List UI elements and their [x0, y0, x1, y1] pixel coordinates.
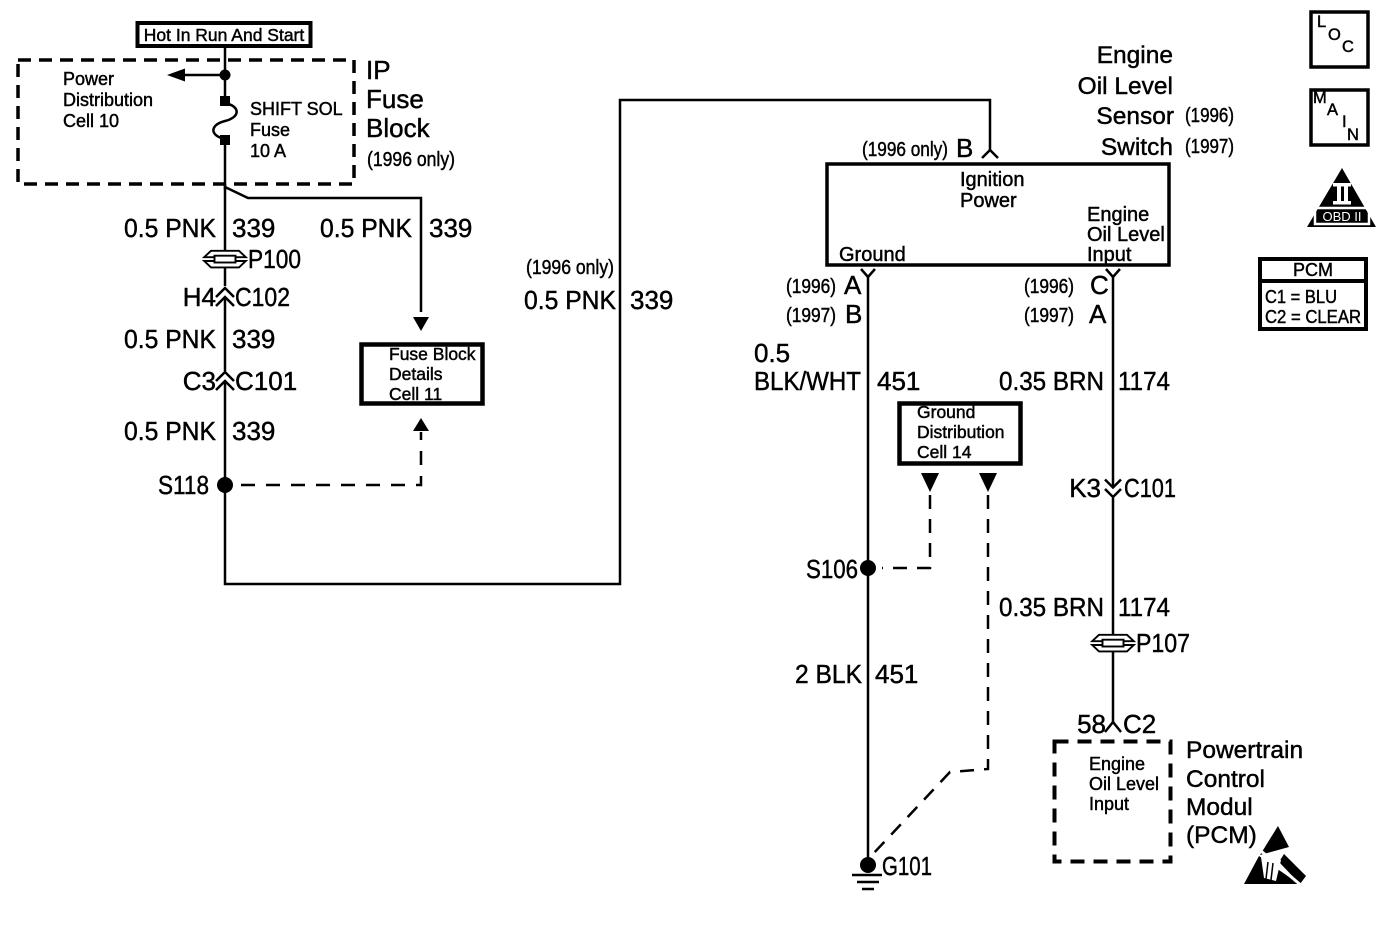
svg-text:Modul: Modul — [1186, 794, 1253, 821]
svg-text:0.5 PNK: 0.5 PNK — [124, 324, 217, 354]
wire: arrow to power distribution — [184, 74, 225, 77]
label 0.35 BRN 1174 (lower) — [999, 592, 1170, 622]
LOC box — [1311, 12, 1368, 67]
svg-text:Cell 14: Cell 14 — [917, 442, 972, 462]
svg-text:BLK/WHT: BLK/WHT — [754, 366, 861, 396]
svg-text:C101: C101 — [235, 366, 297, 396]
svg-text:(1997): (1997) — [1185, 136, 1234, 158]
svg-text:M: M — [1313, 89, 1327, 107]
svg-text:339: 339 — [232, 324, 275, 354]
label 0.5 PNK 339 (row 3) — [124, 416, 275, 446]
svg-text:0.5 PNK: 0.5 PNK — [524, 285, 617, 315]
svg-text:PCM: PCM — [1293, 260, 1333, 280]
MAIN box — [1311, 89, 1368, 145]
svg-text:0.5 PNK: 0.5 PNK — [320, 213, 413, 243]
pin A fork (ground side) — [786, 269, 875, 329]
arrowhead left below Ground Distribution — [921, 473, 939, 492]
svg-text:C: C — [1342, 38, 1354, 56]
svg-text:(1996): (1996) — [786, 276, 836, 298]
svg-text:Control: Control — [1186, 766, 1265, 793]
wire: main run S118 down, right, up and over to switch pin B — [225, 100, 990, 584]
svg-text:451: 451 — [875, 659, 918, 689]
svg-text:Ground: Ground — [839, 244, 906, 266]
svg-text:Details: Details — [389, 364, 443, 384]
pin B fork at switch — [982, 150, 998, 158]
svg-text:A: A — [1089, 299, 1107, 329]
wire: ground wire down to G101 — [867, 277, 870, 858]
svg-text:C2: C2 — [1123, 709, 1156, 739]
svg-text:Fuse Block: Fuse Block — [389, 344, 476, 364]
svg-text:Oil Level: Oil Level — [1087, 224, 1165, 246]
connector H4 C102 — [183, 282, 290, 371]
svg-text:Power: Power — [63, 69, 114, 89]
label 0.5 PNK 339 (row 1 left) — [124, 213, 275, 243]
svg-text:(1997): (1997) — [786, 305, 836, 327]
label 0.5 PNK 339 (row 2) — [124, 324, 275, 354]
wire from Hot box into fuse block — [224, 46, 227, 75]
svg-text:Switch: Switch — [1101, 134, 1173, 161]
svg-text:Oil Level: Oil Level — [1078, 73, 1173, 100]
svg-text:S118: S118 — [158, 470, 209, 500]
node: junction dot in fuse block — [220, 70, 231, 81]
grommet P107 — [1092, 628, 1190, 658]
dashed wire S118 to Fuse Block Details — [241, 432, 421, 485]
connector K3 C101 — [1069, 473, 1176, 636]
svg-text:(1996 only): (1996 only) — [862, 139, 948, 161]
label SHIFT SOL Fuse 10 A — [250, 99, 343, 161]
label 0.5 BLK/WHT 451 — [754, 338, 920, 396]
svg-text:P100: P100 — [248, 244, 301, 274]
svg-text:I: I — [1342, 113, 1347, 131]
svg-text:K3: K3 — [1069, 473, 1101, 503]
svg-text:(1996): (1996) — [1185, 105, 1234, 127]
svg-text:10 A: 10 A — [250, 141, 286, 161]
svg-text:Power: Power — [960, 190, 1017, 212]
svg-text:(PCM): (PCM) — [1186, 822, 1257, 849]
svg-text:1174: 1174 — [1118, 366, 1170, 396]
box Fuse Block Details Cell 11 — [362, 344, 483, 404]
pin 58 C2 fork — [1077, 709, 1156, 739]
svg-text:S106: S106 — [806, 554, 858, 584]
svg-text:C2 = CLEAR: C2 = CLEAR — [1265, 307, 1361, 327]
OBD II symbol — [1307, 168, 1376, 227]
svg-text:0.35 BRN: 0.35 BRN — [999, 592, 1104, 622]
fuse SHIFT SOL 10 A — [213, 75, 236, 190]
svg-text:Cell 11: Cell 11 — [389, 384, 442, 404]
ESD symbol — [1244, 826, 1306, 887]
box Engine Oil Level Sensor/Switch — [827, 164, 1169, 266]
svg-text:Fuse: Fuse — [366, 84, 424, 114]
wire: branch diagonal to right — [225, 187, 421, 312]
svg-text:Distribution: Distribution — [917, 422, 1005, 442]
wire: signal wire down — [1112, 277, 1115, 487]
splice S106 — [806, 554, 876, 584]
svg-text:Powertrain: Powertrain — [1186, 737, 1303, 764]
svg-text:H4: H4 — [183, 282, 216, 312]
svg-text:SHIFT SOL: SHIFT SOL — [250, 99, 343, 119]
svg-text:IP: IP — [366, 55, 391, 85]
dashed wire right arrow down to G101 — [872, 495, 988, 855]
connector C3 C101 — [183, 366, 297, 485]
svg-text:58: 58 — [1077, 709, 1106, 739]
pin C fork (signal side) — [1024, 269, 1120, 329]
svg-text:0.5 PNK: 0.5 PNK — [124, 416, 217, 446]
PCM connector legend box — [1258, 259, 1368, 329]
svg-text:O: O — [1328, 26, 1341, 44]
svg-text:B: B — [956, 133, 973, 163]
label 2 BLK 451 — [795, 659, 918, 689]
ground G101 — [852, 851, 932, 889]
svg-text:(1996 only): (1996 only) — [367, 149, 455, 171]
wire P100 to C102 — [224, 267, 227, 286]
svg-text:P107: P107 — [1136, 628, 1190, 658]
label Powertrain Control Modul (PCM) — [1186, 737, 1303, 849]
heading Engine Oil Level Sensor Switch — [1078, 42, 1234, 161]
grommet P100 — [204, 244, 301, 274]
svg-text:(1996): (1996) — [1024, 276, 1074, 298]
svg-text:Block: Block — [366, 113, 431, 143]
svg-text:Input: Input — [1089, 794, 1129, 814]
svg-text:C3: C3 — [183, 366, 216, 396]
svg-text:0.5: 0.5 — [754, 338, 790, 368]
svg-text:N: N — [1347, 126, 1359, 144]
svg-text:1174: 1174 — [1118, 592, 1170, 622]
splice S118 — [158, 470, 233, 500]
PCM dashed box — [1055, 742, 1171, 862]
svg-text:339: 339 — [232, 416, 275, 446]
IP fuse block dashed box — [18, 60, 354, 184]
svg-text:(1996 only): (1996 only) — [526, 257, 614, 279]
box Ground Distribution Cell 14 — [900, 402, 1021, 464]
svg-text:C102: C102 — [235, 282, 290, 312]
svg-text:Ignition: Ignition — [960, 169, 1025, 191]
svg-text:Fuse: Fuse — [250, 120, 290, 140]
svg-text:Engine: Engine — [1097, 42, 1173, 69]
svg-text:G101: G101 — [882, 851, 932, 881]
svg-text:0.5 PNK: 0.5 PNK — [124, 213, 217, 243]
svg-text:339: 339 — [232, 213, 275, 243]
svg-text:Cell 10: Cell 10 — [63, 111, 119, 131]
svg-text:Input: Input — [1087, 244, 1132, 266]
label 0.35 BRN 1174 (upper) — [999, 366, 1170, 396]
svg-text:C1 = BLU: C1 = BLU — [1265, 287, 1337, 307]
wire: left main vertical below fuse block — [224, 184, 227, 251]
svg-text:A: A — [1327, 101, 1338, 119]
svg-text:2 BLK: 2 BLK — [795, 659, 863, 689]
Hot In Run And Start box — [138, 23, 311, 46]
arrowhead into Fuse Block Details — [413, 317, 429, 331]
svg-text:0.35 BRN: 0.35 BRN — [999, 366, 1104, 396]
svg-text:B: B — [845, 299, 862, 329]
svg-text:Oil Level: Oil Level — [1089, 774, 1159, 794]
svg-text:(1997): (1997) — [1024, 305, 1074, 327]
dashed wire left arrow to S106 — [882, 495, 930, 568]
svg-text:C101: C101 — [1124, 473, 1176, 503]
arrowhead right below Ground Distribution — [979, 473, 997, 492]
svg-text:OBD II: OBD II — [1322, 209, 1361, 224]
svg-text:Engine: Engine — [1087, 204, 1149, 226]
svg-text:Engine: Engine — [1089, 754, 1145, 774]
label 0.5 PNK 339 (row 1 branch) — [320, 213, 472, 243]
svg-text:339: 339 — [429, 213, 472, 243]
svg-text:Distribution: Distribution — [63, 90, 153, 110]
svg-text:451: 451 — [877, 366, 920, 396]
svg-text:Sensor: Sensor — [1096, 103, 1174, 130]
svg-text:C: C — [1090, 270, 1109, 300]
label Power Distribution Cell 10 — [63, 69, 153, 131]
svg-text:339: 339 — [630, 285, 673, 315]
svg-text:Ground: Ground — [917, 402, 975, 422]
svg-text:L: L — [1317, 13, 1326, 31]
svg-text:Hot In Run And Start: Hot In Run And Start — [144, 25, 305, 45]
svg-text:A: A — [844, 270, 862, 300]
wire P107 to pin 58 C2 — [1112, 651, 1115, 722]
label IP Fuse Block — [366, 55, 431, 143]
